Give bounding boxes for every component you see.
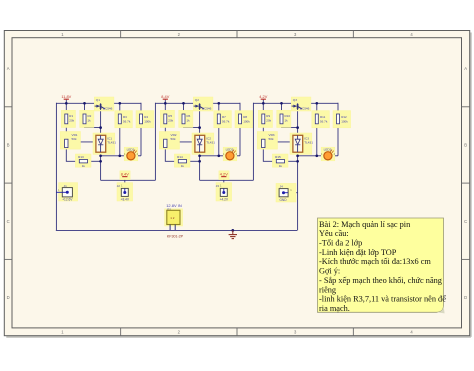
wire: block2 IC cathode down xyxy=(199,152,201,180)
resistor R8 100k xyxy=(235,111,253,128)
svg-text:56.7k: 56.7k xyxy=(222,119,230,123)
wire: block2 Ra top stub xyxy=(164,103,166,114)
wire: block2 VR bottom to Rh xyxy=(165,148,178,162)
wire: ground rail (bottom bus) xyxy=(56,229,297,231)
wire: block3 transistor column xyxy=(297,103,299,135)
svg-text:4.2V: 4.2V xyxy=(220,172,228,177)
node: block2 Rb junction xyxy=(182,102,185,105)
svg-text:Q3: Q3 xyxy=(293,98,297,102)
power port 8.4V (stage output) xyxy=(120,171,130,180)
wire: block1 Rc column xyxy=(119,103,121,114)
wire: block1 Ra to VR xyxy=(65,124,67,139)
svg-text:-linh kiện R3,7,11 và transist: -linh kiện R3,7,11 và transistor nên để xyxy=(319,295,446,304)
wire: block1 IC cathode down xyxy=(100,152,102,180)
wire: block2 IC to LED node xyxy=(200,155,219,157)
node: block1 Rc junction xyxy=(118,102,121,105)
wire: block2 top rail xyxy=(155,102,240,104)
svg-text:1k: 1k xyxy=(82,164,86,168)
wire: block1 VR wiper arrowhead xyxy=(69,142,72,145)
node: block2 LED-left junction xyxy=(217,154,220,157)
wire: block2 left rail xyxy=(154,103,156,181)
svg-text:TL431: TL431 xyxy=(206,141,215,145)
svg-text:Q1: Q1 xyxy=(96,98,100,102)
svg-text:A: A xyxy=(7,66,10,71)
svg-text:KF301-2P: KF301-2P xyxy=(167,235,184,239)
svg-text:50k: 50k xyxy=(171,137,176,141)
sheet drop shadow xyxy=(6,336,471,338)
resistor R12 100k xyxy=(333,111,351,128)
wire: block1 LED right lead xyxy=(135,155,141,157)
node: ground junction xyxy=(231,229,234,232)
wire: block3 VR wiper arrowhead xyxy=(266,142,269,145)
wire: block3 top rail xyxy=(253,102,338,104)
wire: block3 LED right lead xyxy=(332,155,338,157)
node: block1 Rb/emitter junction xyxy=(99,126,102,129)
wire: block1 bottom port stub xyxy=(124,177,126,181)
svg-text:J2: J2 xyxy=(117,184,121,188)
node: block1 Rh junction xyxy=(99,160,102,163)
wire: block3 VR bottom to Rh xyxy=(263,148,276,162)
svg-text:- Sắp xếp mạch theo khối, chức: - Sắp xếp mạch theo khối, chức năng xyxy=(319,276,442,285)
frame row ticks xyxy=(4,107,469,260)
shunt regulator IC1 TL431 xyxy=(93,133,116,154)
wire: block2 LED left lead xyxy=(219,155,226,157)
connector P1 12.8V IN (KF301-2P) xyxy=(165,203,184,238)
wire: block3 left rail xyxy=(252,103,254,181)
wire: block3 Rb bottom to IC column xyxy=(282,124,298,128)
node: block1 Rb junction xyxy=(83,102,86,105)
svg-text:100k: 100k xyxy=(144,119,151,123)
svg-text:Gợi ý:: Gợi ý: xyxy=(319,267,340,276)
potentiometer VR3 50k xyxy=(257,132,277,150)
svg-text:TL431: TL431 xyxy=(304,141,313,145)
power port 4.2V block3 xyxy=(259,94,267,99)
frame zone labels xyxy=(7,32,468,334)
wire: block3 Rh to IC column xyxy=(285,160,298,162)
svg-text:R13: R13 xyxy=(78,155,84,159)
svg-text:20k: 20k xyxy=(168,119,173,123)
svg-text:4.2V: 4.2V xyxy=(259,94,267,99)
svg-text:R14: R14 xyxy=(177,155,183,159)
svg-text:B: B xyxy=(464,142,467,147)
wire: block1 bottom tie to next stage xyxy=(101,179,156,181)
wire: block3 Ra to VR xyxy=(262,124,264,139)
svg-text:8.4V: 8.4V xyxy=(161,94,169,99)
wire: block2 VR wiper arrowhead xyxy=(168,142,171,145)
resistor R15 1k (horizontal) xyxy=(272,154,288,168)
wire: block1 transistor column xyxy=(100,103,102,135)
svg-text:B: B xyxy=(7,142,10,147)
wire: block3 LED left lead xyxy=(317,155,324,157)
power port 8.4V block2 xyxy=(161,94,169,99)
node: block3 Rh junction xyxy=(296,160,299,163)
LED LED2 xyxy=(223,147,238,161)
svg-text:TL431: TL431 xyxy=(107,141,116,145)
svg-text:D: D xyxy=(464,295,467,300)
transistor Q2 BC546 xyxy=(193,97,213,111)
wire: block1 Rb bottom to IC column xyxy=(85,124,101,128)
svg-text:8.4V: 8.4V xyxy=(121,172,129,177)
svg-text:100k: 100k xyxy=(243,119,250,123)
node: block2 Rh junction xyxy=(198,160,201,163)
wire: block2 Rd column xyxy=(239,103,241,114)
resistor R6 1k xyxy=(179,110,193,127)
svg-text:1k: 1k xyxy=(187,119,191,123)
wire: block2 Rh to IC column xyxy=(187,160,200,162)
node: block3 LED-left junction xyxy=(315,154,318,157)
svg-text:20k: 20k xyxy=(266,119,271,123)
resistor R11 56.7k xyxy=(312,111,330,128)
connector J2 +8.4V xyxy=(117,183,133,202)
svg-text:+12.6V: +12.6V xyxy=(62,198,73,202)
node: block1 cathode/LED junction xyxy=(99,154,102,157)
wire: block1 power stub xyxy=(65,99,67,103)
svg-text:BC546: BC546 xyxy=(202,107,212,111)
svg-text:56.7k: 56.7k xyxy=(320,119,328,123)
wire: block2 Ra to VR xyxy=(164,124,166,139)
wire: block3 IC ref to VR wiper xyxy=(266,142,293,144)
svg-text:C: C xyxy=(7,219,10,224)
resistor R5 20k xyxy=(160,110,174,127)
node: block2 cathode/LED junction xyxy=(198,154,201,157)
svg-text:Bài 2: Mạch quản lí sạc pin: Bài 2: Mạch quản lí sạc pin xyxy=(319,220,411,229)
resistor R10 1k xyxy=(277,110,291,127)
svg-text:J1: J1 xyxy=(64,184,68,188)
svg-text:Q2: Q2 xyxy=(195,98,199,102)
svg-text:56.7k: 56.7k xyxy=(123,119,131,123)
shunt regulator IC2 TL431 xyxy=(192,133,215,154)
wire: block1 connector stub xyxy=(124,180,126,188)
wire: block2 bottom tie to next stage xyxy=(200,179,254,181)
node: block1 LED-left junction xyxy=(118,154,121,157)
wire: block2 Rb top stub xyxy=(183,103,185,114)
resistor R7 56.7k xyxy=(214,111,232,128)
wire: block1 VR bottom to Rh xyxy=(66,148,79,162)
wire: block3 Rb top stub xyxy=(281,103,283,114)
wire: connector J4 stub xyxy=(288,192,298,194)
LED LED1 xyxy=(124,147,139,161)
wire: block1 LED left lead xyxy=(120,155,127,157)
resistor R14 1k (horizontal) xyxy=(174,154,190,168)
node: block2 power/Ra junction xyxy=(164,102,167,105)
resistor R3 56.7k xyxy=(115,111,133,128)
svg-text:D: D xyxy=(7,295,10,300)
wire: block1 IC to LED node xyxy=(101,155,120,157)
svg-text:50k: 50k xyxy=(269,137,274,141)
svg-text:R15: R15 xyxy=(275,155,281,159)
svg-text:C: C xyxy=(464,219,467,224)
svg-text:1 2: 1 2 xyxy=(170,216,175,220)
svg-text:11.8V: 11.8V xyxy=(61,94,71,99)
wire: block2 connector stub xyxy=(223,180,225,188)
wire: block3 cathode column to ground rail xyxy=(297,161,299,230)
svg-text:LED3: LED3 xyxy=(324,147,332,151)
inner border frame xyxy=(12,38,462,328)
wire: block1 Rb top stub xyxy=(84,103,86,114)
connector J3 +4.2V xyxy=(216,183,232,202)
LED LED3 xyxy=(321,147,336,161)
potentiometer VR1 50k xyxy=(60,132,80,150)
resistor R4 100k xyxy=(136,111,154,128)
wire: block2 IC ref to VR wiper xyxy=(168,142,195,144)
node: block3 Rb/emitter junction xyxy=(296,126,299,129)
wire: block2 Rb bottom to IC column xyxy=(184,124,200,128)
wire: block3 IC to LED node xyxy=(298,155,317,157)
wire: block1 Ra top stub xyxy=(65,103,67,114)
frame column ticks xyxy=(121,31,354,336)
wire: block1 left rail xyxy=(55,103,57,231)
wire: block1 IC ref to VR wiper xyxy=(69,142,96,144)
svg-text:J3: J3 xyxy=(216,184,220,188)
node: block2 Rb/emitter junction xyxy=(198,126,201,129)
node: block3 cathode/LED junction xyxy=(296,154,299,157)
resistor R13 1k (horizontal) xyxy=(75,154,91,168)
svg-text:riêng: riêng xyxy=(319,285,336,294)
node: block2 Rc junction xyxy=(217,102,220,105)
wire: block2 Rc column xyxy=(218,103,220,114)
svg-text:BC546: BC546 xyxy=(103,107,113,111)
svg-text:20k: 20k xyxy=(69,119,74,123)
wire: block3 power stub xyxy=(262,99,264,103)
potentiometer VR2 50k xyxy=(159,132,179,150)
wire: block3 Rd column xyxy=(337,103,339,114)
connector J1 +12.6V xyxy=(56,183,77,202)
transistor Q3 BC546 xyxy=(291,97,311,111)
svg-text:+8.4V: +8.4V xyxy=(121,198,130,202)
power port 4.2V (stage output) xyxy=(219,171,229,180)
node: block3 Rc junction xyxy=(315,102,318,105)
svg-text:100k: 100k xyxy=(341,119,348,123)
wire: block3 IC cathode down xyxy=(297,152,299,161)
svg-text:BC546: BC546 xyxy=(300,107,310,111)
svg-text:J4: J4 xyxy=(280,185,284,189)
svg-text:50k: 50k xyxy=(72,137,77,141)
wire: block2 LED right lead xyxy=(234,155,240,157)
resistor R1 20k xyxy=(61,110,75,127)
ground symbol xyxy=(229,230,237,238)
node: block3 Rb junction xyxy=(280,102,283,105)
svg-text:A: A xyxy=(464,66,467,71)
svg-text:-Linh kiện đặt lớp TOP: -Linh kiện đặt lớp TOP xyxy=(319,248,397,257)
node: block3 power/Ra junction xyxy=(262,102,265,105)
node: block1 power/Ra junction xyxy=(65,102,68,105)
note box: Bai 2 requirements xyxy=(318,218,447,313)
svg-text:1k: 1k xyxy=(285,119,289,123)
connector J4 GND xyxy=(276,183,296,202)
resistor R2 1k xyxy=(80,110,94,127)
svg-text:LED2: LED2 xyxy=(226,147,234,151)
power port 11.8V block1 xyxy=(61,94,71,99)
svg-text:-Kích thước mạch tối đa:13x6 c: -Kích thước mạch tối đa:13x6 cm xyxy=(319,257,431,266)
svg-text:Yêu cầu:: Yêu cầu: xyxy=(319,229,349,238)
wire: block3 Rc column xyxy=(316,103,318,114)
wire: block1 Rh to IC column xyxy=(88,160,101,162)
svg-text:1k: 1k xyxy=(279,164,283,168)
wire: block2 power stub xyxy=(164,99,166,103)
svg-text:GND: GND xyxy=(279,198,287,202)
resistor R9 20k xyxy=(258,110,272,127)
svg-text:1k: 1k xyxy=(88,119,92,123)
svg-text:+4.2V: +4.2V xyxy=(220,198,229,202)
wire: block2 transistor column xyxy=(199,103,201,135)
shunt regulator IC3 TL431 xyxy=(290,133,313,154)
svg-text:1k: 1k xyxy=(181,164,185,168)
svg-text:ria mạch.: ria mạch. xyxy=(319,304,350,313)
wire: block1 Rd column xyxy=(140,103,142,114)
transistor Q1 BC546 xyxy=(94,97,114,111)
svg-text:LED1: LED1 xyxy=(127,147,135,151)
wire: block2 bottom port stub xyxy=(223,177,225,181)
wire: block3 Ra top stub xyxy=(262,103,264,114)
svg-text:-Tối đa 2 lớp: -Tối đa 2 lớp xyxy=(319,239,362,248)
wire: block1 top rail xyxy=(56,102,141,104)
